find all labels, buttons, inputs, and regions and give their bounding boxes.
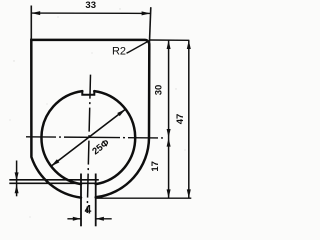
svg-text:33: 33 [85,0,96,11]
arrowhead right of dim 33 [142,11,151,15]
extension line at bottom tangent [96,197,191,199]
bore circle phi25 (left arc) [41,91,82,184]
part outline (plate with R2 corner and round bottom) [31,40,149,198]
diameter dimension line 25phi (diagonal) [51,109,126,166]
dimension line 4 right segment [96,218,112,220]
svg-text:47: 47 [175,114,186,125]
saw slit upper line [9,179,99,181]
keyway notch at bore top [82,91,94,95]
value label 25phi [90,137,111,157]
value label 4 [85,203,92,217]
leader line of R2 [127,41,149,53]
arrowhead left-pointing of dim 4 [96,217,104,221]
arrowhead up of dim 17 at centerline [167,138,171,147]
extension line right of top edge [149,39,189,41]
dimension line 4 left segment [67,218,81,220]
radius label R2 [112,46,126,58]
value label 30 [153,85,164,96]
arrowhead bottom of dim 17 [167,189,171,198]
svg-text:30: 30 [153,85,164,96]
arrowhead upper-right of 25phi [117,109,125,116]
arrowhead left of dim 33 [31,11,40,15]
saw slit lower line [9,182,95,184]
slit width dimension line (left) [16,161,18,197]
arrowhead lower-left of 25phi [51,159,59,166]
svg-text:17: 17 [150,161,161,172]
paper background [0,0,199,236]
horizontal center line (dash-dot) [26,137,166,138]
extension line above right corner for dim 33 [149,7,150,44]
scan speckles [9,8,185,217]
bottom slot side right / extension line for dim 4 [95,174,97,227]
arrowhead down of dim 30 at centerline [167,129,171,138]
arrowhead top of dim 30 [167,40,171,49]
value label 33 [85,0,96,11]
bottom slot side left / extension line for dim 4 [80,174,82,227]
bore circle phi25 (right+bottom arc) [94,91,135,184]
dimension line 30/17 [168,40,170,198]
svg-text:4: 4 [85,203,92,217]
arrowhead up to slit lower line [15,185,19,194]
arrowhead right-pointing of dim 4 [73,217,81,221]
value label 17 [150,161,161,172]
arrowhead bottom of dim 47 [187,189,191,198]
arrowhead top of dim 47 [187,40,191,49]
arrowhead down to slit upper line [15,172,19,181]
extension line above left edge for dim 33 [30,6,32,40]
dimension line 47 [188,40,190,198]
dimension line 33 [31,12,150,14]
vertical center line (dash-dot) [87,75,90,213]
svg-text:R2: R2 [112,46,126,58]
value label 47 [175,114,186,125]
